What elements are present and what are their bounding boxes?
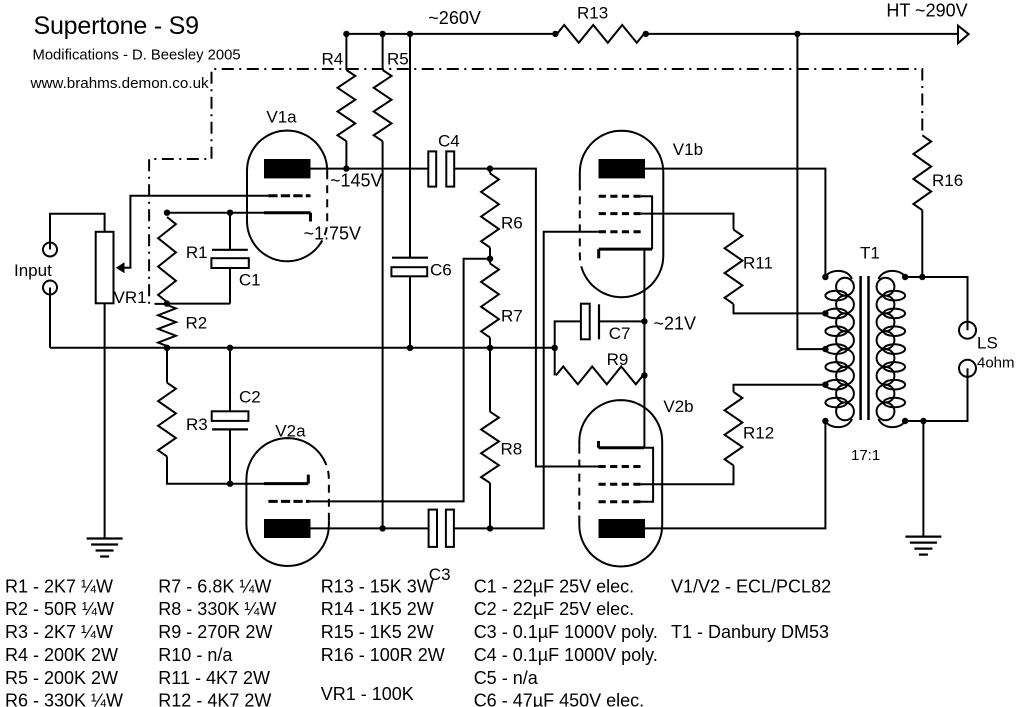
junction rail-C6	[407, 31, 413, 37]
wire R1-C1 bottom bar	[167, 303, 230, 305]
label R12	[743, 424, 774, 443]
parts list column 2	[158, 576, 276, 707]
wire V2b screen to R12	[641, 465, 734, 484]
label R6	[501, 214, 523, 233]
svg-text:R14 - 1K5 2W: R14 - 1K5 2W	[321, 599, 434, 619]
label HT ~290V	[886, 0, 967, 20]
svg-text:R1 - 2K7 ¼W: R1 - 2K7 ¼W	[5, 576, 113, 596]
label VR1	[114, 288, 147, 307]
wire HT rail left	[346, 33, 555, 35]
input jack tip terminal	[43, 243, 57, 257]
VR1 wiper arrowhead	[116, 262, 125, 273]
tube V1a envelope	[247, 131, 327, 262]
svg-text:R10 - n/a: R10 - n/a	[158, 645, 233, 665]
junction cathode-C1	[227, 210, 233, 216]
tube V2b envelope dashed arc	[578, 446, 580, 516]
resistor R12	[725, 392, 743, 466]
label C1	[239, 271, 261, 290]
V1a anode plate	[264, 159, 311, 178]
wire jack sleeve to common rail	[49, 288, 51, 348]
junction C2-cathode	[227, 481, 233, 487]
HT output arrow	[958, 26, 969, 44]
wire C1 top lead	[229, 213, 231, 250]
svg-text:T1 - Danbury DM53: T1 - Danbury DM53	[671, 622, 829, 642]
svg-text:V1/V2 - ECL/PCL82: V1/V2 - ECL/PCL82	[671, 576, 831, 596]
label V2a	[275, 422, 306, 441]
svg-text:C1: C1	[239, 271, 261, 290]
svg-text:R7: R7	[501, 307, 523, 326]
svg-text:R8: R8	[501, 439, 523, 458]
svg-text:R12: R12	[743, 424, 774, 443]
svg-text:C4 - 0.1µF 1000V poly.: C4 - 0.1µF 1000V poly.	[474, 645, 658, 665]
wire V1b cathode down	[643, 249, 645, 448]
junction C4-R6	[487, 165, 493, 171]
junction anode-R4	[343, 165, 349, 171]
wire secondary top to LS	[905, 277, 967, 330]
wire secondary bottom to LS	[905, 368, 967, 421]
resistor R2	[158, 305, 176, 346]
node ~1.75V label	[304, 224, 362, 244]
svg-text:R9 - 270R 2W: R9 - 270R 2W	[158, 622, 272, 642]
V2b g3-cathode tie	[641, 448, 654, 502]
junction rail-R5	[379, 31, 385, 37]
junction cathode-C7 (~21V)	[641, 318, 647, 324]
speaker LS terminal top	[959, 322, 976, 339]
subtitle text	[33, 48, 241, 64]
wire R6R7 junction to V2a grid	[310, 259, 490, 502]
junction R7-R8	[487, 345, 493, 351]
potentiometer VR1 body	[96, 232, 114, 303]
parts list column 4	[474, 576, 658, 707]
junction rail-R4	[343, 31, 349, 37]
junction common-C6	[407, 345, 413, 351]
tube V2a envelope dashed arc	[323, 459, 329, 521]
svg-text:Modifications - D. Beesley 200: Modifications - D. Beesley 2005	[33, 48, 241, 64]
label R8	[501, 439, 523, 458]
resistor R7	[481, 259, 499, 348]
label R7	[501, 307, 523, 326]
label R9	[607, 350, 629, 369]
label R1	[186, 243, 208, 262]
svg-text:V1a: V1a	[266, 108, 297, 127]
svg-text:VR1 - 100K: VR1 - 100K	[321, 684, 414, 704]
label Input	[14, 261, 52, 280]
node ~21V label	[654, 314, 697, 334]
svg-text:VR1: VR1	[114, 288, 147, 307]
V2b control grid g1	[599, 465, 641, 468]
label 17:1	[851, 447, 880, 464]
label R5	[387, 50, 409, 69]
V2a cathode	[264, 475, 308, 484]
svg-text:T1: T1	[860, 244, 880, 263]
svg-text:Input: Input	[14, 261, 52, 280]
svg-text:C3 - 0.1µF 1000V poly.: C3 - 0.1µF 1000V poly.	[474, 622, 658, 642]
label V1a	[266, 108, 297, 127]
capacitor C1	[211, 250, 248, 304]
svg-text:R11: R11	[743, 254, 773, 273]
V1a cathode	[264, 213, 311, 222]
svg-text:LS: LS	[977, 334, 998, 353]
svg-text:C6: C6	[430, 261, 452, 280]
resistor R4	[338, 34, 356, 169]
resistor R5	[374, 34, 392, 529]
junction anode-R5	[379, 525, 385, 531]
T1 primary winding	[825, 271, 854, 427]
junction common-R2R3	[164, 345, 170, 351]
resistor R6	[481, 169, 499, 259]
wire common line	[50, 347, 555, 349]
svg-text:C4: C4	[438, 132, 460, 151]
tube V2a envelope	[246, 438, 329, 566]
T1 UL tap lower terminal	[822, 382, 828, 388]
resistor R11	[725, 230, 743, 304]
label C7	[609, 324, 631, 343]
svg-text:R1: R1	[186, 243, 208, 262]
wire C7 left lead	[555, 321, 581, 347]
svg-text:C2 - 22µF 25V elec.: C2 - 22µF 25V elec.	[474, 599, 634, 619]
junction R6-R7	[487, 256, 493, 262]
junction cathode-R1	[164, 210, 170, 216]
svg-text:~1.75V: ~1.75V	[304, 224, 362, 244]
label LS	[977, 334, 998, 353]
junction rail-R13 left	[552, 31, 558, 37]
svg-text:R5: R5	[387, 50, 409, 69]
wire HT rail right	[646, 33, 958, 35]
label 4ohm	[977, 355, 1015, 372]
T1 center tap terminal	[822, 346, 828, 352]
svg-text:C2: C2	[239, 388, 261, 407]
wire C2 top lead	[229, 348, 231, 412]
svg-text:17:1: 17:1	[851, 447, 880, 464]
parts list column 3	[321, 576, 445, 704]
label V1b	[673, 140, 703, 159]
junction cathode-R9	[641, 372, 647, 378]
V2b anode plate	[599, 519, 646, 538]
svg-text:HT ~290V: HT ~290V	[886, 0, 967, 20]
label C6	[430, 261, 452, 280]
wire R12 to T1 UL tap lower	[734, 385, 826, 392]
label R16	[932, 171, 963, 190]
label R4	[322, 50, 344, 69]
label T1	[860, 244, 880, 263]
capacitor C3	[429, 510, 454, 547]
title text	[34, 12, 199, 40]
svg-text:R2: R2	[186, 314, 208, 333]
wire C3 to V1b grid	[454, 232, 599, 529]
svg-text:4ohm: 4ohm	[977, 355, 1015, 372]
V2b screen grid g2	[599, 483, 641, 486]
V1b screen grid g2	[599, 212, 641, 215]
capacitor C4	[428, 151, 454, 186]
node ~260V label	[428, 8, 481, 28]
V1b g3-cathode tie	[641, 196, 652, 249]
resistor R3	[158, 348, 176, 457]
resistor R16	[913, 135, 931, 277]
svg-text:R8 - 330K ¼W: R8 - 330K ¼W	[158, 599, 276, 619]
svg-text:R9: R9	[607, 350, 629, 369]
V2b cathode	[599, 441, 645, 448]
svg-text:R2 - 50R ¼W: R2 - 50R ¼W	[5, 599, 114, 619]
svg-text:R13: R13	[577, 4, 608, 23]
svg-text:~260V: ~260V	[428, 8, 481, 28]
svg-text:C5 - n/a: C5 - n/a	[474, 668, 539, 688]
svg-text:R11 - 4K7 2W: R11 - 4K7 2W	[158, 668, 270, 688]
V1b control grid g1	[599, 230, 641, 233]
capacitor C2	[212, 411, 249, 483]
wire rail to C6	[409, 34, 411, 258]
T1 core	[861, 276, 869, 420]
svg-text:R12 - 4K7 2W: R12 - 4K7 2W	[158, 690, 271, 707]
T1 primary bottom terminal	[822, 418, 828, 424]
wire V1a cathode to R1	[167, 212, 264, 214]
node ~145V label	[330, 171, 383, 191]
ground symbol left	[87, 539, 123, 557]
V2a anode plate	[264, 519, 311, 538]
wire ground drop	[922, 421, 924, 537]
svg-text:~145V: ~145V	[330, 171, 383, 191]
junction R1-R2	[164, 300, 170, 306]
T1 UL tap upper terminal	[822, 310, 828, 316]
resistor R13	[557, 25, 644, 43]
wire common to R9	[554, 348, 556, 376]
label C4	[438, 132, 460, 151]
svg-text:R16 - 100R 2W: R16 - 100R 2W	[321, 645, 445, 665]
junction R16-secondary	[919, 274, 925, 280]
junction rail-HT takeoff	[794, 31, 800, 37]
junction C3-R8	[487, 525, 493, 531]
resistor R8	[481, 348, 499, 529]
svg-text:C7: C7	[609, 324, 631, 343]
input jack sleeve terminal	[43, 281, 57, 295]
V1b suppressor grid g3	[599, 195, 641, 198]
wire C7 right lead	[599, 320, 644, 322]
V1a grid	[268, 194, 310, 197]
wire HT to T1 center tap	[797, 34, 825, 349]
svg-text:R6: R6	[501, 214, 523, 233]
label R2	[186, 314, 208, 333]
svg-text:V2b: V2b	[663, 397, 693, 416]
svg-text:C6 - 47µF 450V elec.: C6 - 47µF 450V elec.	[474, 690, 644, 707]
V1b anode plate	[599, 159, 646, 178]
capacitor C7	[581, 304, 599, 340]
wire VR1 bottom to ground	[104, 303, 106, 538]
svg-text:C1 - 22µF 25V elec.: C1 - 22µF 25V elec.	[474, 576, 634, 596]
tube V2b envelope	[579, 400, 662, 566]
svg-text:R3 - 2K7 ¼W: R3 - 2K7 ¼W	[5, 622, 113, 642]
svg-text:R7 - 6.8K ¼W: R7 - 6.8K ¼W	[158, 576, 271, 596]
svg-text:Supertone - S9: Supertone - S9	[34, 12, 199, 40]
junction rail-R13 right	[643, 31, 649, 37]
capacitor C6	[391, 258, 428, 348]
svg-text:V1b: V1b	[673, 140, 703, 159]
wire V1a anode line	[311, 168, 429, 170]
V2b suppressor grid g3	[599, 500, 641, 503]
svg-text:V2a: V2a	[275, 422, 306, 441]
website text	[30, 75, 210, 92]
label V2b	[663, 397, 693, 416]
V1b cathode	[599, 249, 652, 258]
wire jack tip to VR1 top	[50, 214, 105, 250]
junction common-C2	[227, 345, 233, 351]
tube V1b envelope dashed arc	[580, 182, 584, 273]
svg-text:~21V: ~21V	[654, 314, 697, 334]
wire V1b anode to T1 primary top	[645, 169, 825, 277]
tube V1a envelope dashed arc	[318, 179, 327, 247]
label R11	[743, 254, 773, 273]
label C3	[429, 565, 451, 584]
svg-text:R6 - 330K ¼W: R6 - 330K ¼W	[5, 690, 123, 707]
svg-text:www.brahms.demon.co.uk: www.brahms.demon.co.uk	[30, 75, 210, 92]
wire R3 bottom to C2 bottom	[167, 456, 264, 483]
V2a grid	[268, 500, 309, 503]
svg-text:R3: R3	[186, 415, 208, 434]
T1 secondary top terminal	[902, 274, 908, 280]
junction common-end	[552, 345, 558, 351]
svg-text:R4: R4	[322, 50, 344, 69]
T1 primary top terminal	[822, 274, 828, 280]
svg-text:R13 - 15K 3W: R13 - 15K 3W	[321, 576, 434, 596]
ground symbol right	[905, 537, 941, 555]
tube V1b envelope	[580, 131, 664, 298]
T1 secondary bottom terminal	[902, 418, 908, 424]
T1 secondary winding	[877, 271, 906, 427]
junction secondary-ground	[920, 418, 926, 424]
resistor R1	[158, 217, 176, 302]
label C2	[239, 388, 261, 407]
chassis shield dash-dot boundary	[149, 69, 922, 304]
wire R11 to T1 UL tap upper	[734, 304, 826, 313]
speaker LS terminal bottom	[959, 360, 976, 377]
label R3	[186, 415, 208, 434]
parts list column 5	[671, 576, 831, 642]
svg-text:R15 - 1K5 2W: R15 - 1K5 2W	[321, 622, 434, 642]
wire V2b anode to T1 primary bottom	[645, 421, 825, 528]
wire C4 to V2b grid	[454, 169, 598, 467]
wire V2a anode line	[311, 527, 429, 529]
svg-text:R4 - 200K 2W: R4 - 200K 2W	[5, 645, 118, 665]
wire VR1 wiper to V1a grid	[123, 196, 268, 268]
wire V1b screen to R11	[641, 214, 734, 230]
svg-text:R5 - 200K 2W: R5 - 200K 2W	[5, 668, 118, 688]
svg-text:R16: R16	[932, 171, 963, 190]
resistor R9	[556, 367, 643, 385]
parts list column 1	[5, 576, 123, 707]
label R13	[577, 4, 608, 23]
